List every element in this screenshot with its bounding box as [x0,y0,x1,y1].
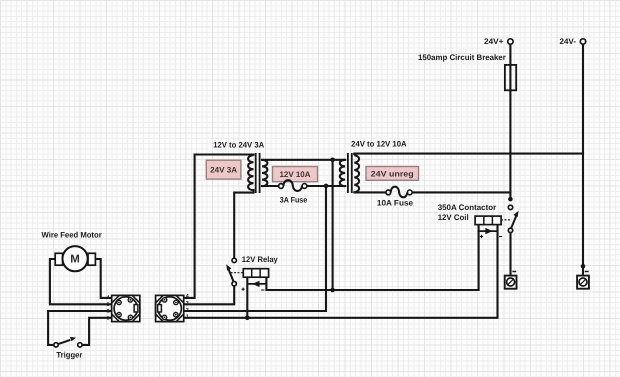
ring terminal left [512,271,516,273]
svg-text:Trigger: Trigger [56,350,82,359]
svg-text:12V 10A: 12V 10A [280,170,311,179]
node junction above right terminal [581,264,586,269]
svg-text:2: 2 [186,307,189,313]
node junction relay output [330,288,335,293]
svg-text:M: M [70,254,80,266]
svg-text:10A Fuse: 10A Fuse [377,199,414,208]
value label 12V 10A [273,167,318,182]
wire 24V- vertical [582,44,584,275]
wire T1 pri top to conn pin4 [184,155,254,298]
contactor K2 mech link dashes [501,219,511,221]
wire 10A fuse right to 24V+ line [412,191,510,193]
terminal 24V+ [508,39,513,44]
contactor K2 coil box [475,216,501,225]
wire T1 pri bottom to relay switch [234,190,253,258]
svg-text:1: 1 [107,316,110,322]
wire trigger right to conn pin1 [82,318,112,345]
fuse F2 10A [386,190,391,195]
wire relay switch to conn pin3 [184,286,235,304]
svg-text:12V Coil: 12V Coil [438,213,469,222]
circuit breaker CB1 150amp [505,65,516,90]
transformer T1 secondary coil [262,160,267,186]
svg-text:12V to 24V 3A: 12V to 24V 3A [213,141,264,150]
wire 24V+ vertical [509,44,511,197]
svg-text:350A Contactor: 350A Contactor [438,203,497,212]
svg-text:4: 4 [186,294,189,300]
node junction top wire [330,158,335,163]
terminal 24V- [580,39,585,44]
wire trigger left to conn pin2 [48,311,112,345]
svg-text:4: 4 [107,295,110,301]
svg-text:3: 3 [186,301,189,307]
relay K1 coil box [243,269,268,278]
svg-text:3: 3 [107,302,110,308]
wire contactor switch to terminal [509,233,511,276]
contactor K2 bar with arrow [479,230,498,232]
transformer T2 24V to 12V 10A primary coil [340,160,345,186]
value label 24V unreg [366,167,419,181]
relay K1 mech link dashes [231,272,244,274]
svg-text:24V+: 24V+ [484,37,504,46]
svg-text:150amp Circuit Breaker: 150amp Circuit Breaker [418,53,506,62]
motor M1 wire feed [55,253,62,265]
connector right CPC [156,295,184,321]
ring terminal right [585,271,589,273]
wire relay left leg [246,277,248,318]
relay K1 polarity marks [242,288,245,290]
fuse F1 3A [279,184,284,189]
node junction pin1 line [245,316,250,321]
value label 24V 3A [206,160,241,179]
node junction above contactor switch [508,197,513,202]
svg-text:24V to 12V 10A: 24V to 12V 10A [351,139,407,148]
contactor K2 polarity marks [480,236,483,238]
wire T2 secondary top to 24V- [354,153,583,155]
relay K1 switch [232,258,236,262]
svg-text:24V 3A: 24V 3A [210,166,237,175]
switch trigger [54,343,58,347]
transformer T1 12V to 24V 3A primary coil [248,155,253,190]
contactor K2 switch [508,205,512,209]
wire relay out to contactor left leg [266,225,478,290]
relay K1 bar with arrow [247,283,266,285]
connector left CPC [112,295,140,321]
svg-text:24V unreg: 24V unreg [371,169,414,178]
wire node-B vertical x=326 to pin2 [184,186,326,311]
wire T1 sec top / T2 pri top [262,159,345,161]
transformer T2 secondary coil [354,155,359,192]
wire contactor right leg to conn pin1 [184,225,498,318]
wire 3A fuse to T2 pri bottom [307,185,346,187]
wire node-A vertical x=332.6 [332,160,334,290]
svg-text:3A Fuse: 3A Fuse [280,195,308,204]
wire motor left to conn pin3 [50,259,112,304]
svg-text:24V-: 24V- [560,37,577,46]
svg-text:2: 2 [107,309,110,315]
transformer T2 core [347,153,349,193]
svg-text:Wire Feed Motor: Wire Feed Motor [42,230,102,239]
svg-text:12V Relay: 12V Relay [242,255,279,264]
svg-text:1: 1 [186,314,189,320]
wire T1 sec bottom to 3A fuse [262,185,279,187]
node junction fuse wire [324,184,329,189]
wire motor right to conn pin4 [95,259,111,298]
wire T2 secondary bottom left part [354,191,386,193]
transformer T1 core [255,153,257,193]
